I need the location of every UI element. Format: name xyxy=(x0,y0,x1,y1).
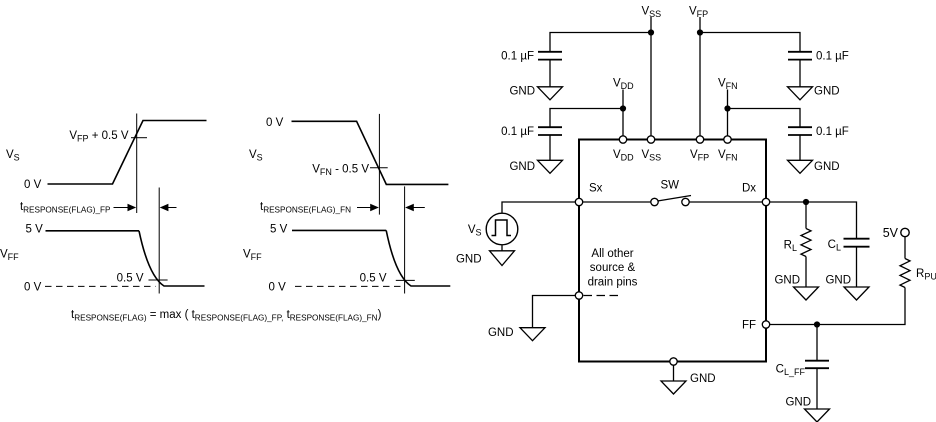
wire RPU to FF rail xyxy=(770,288,906,325)
svg-text:GND: GND xyxy=(509,161,535,173)
wire Vs source to Sx pin xyxy=(502,202,576,213)
svg-text:0 V: 0 V xyxy=(24,282,42,294)
svg-text:GND: GND xyxy=(690,373,716,385)
wire Vff falling waveform (FP case) xyxy=(46,230,140,232)
svg-text:GND: GND xyxy=(456,254,482,266)
capacitor CL xyxy=(844,239,870,247)
svg-text:source &: source & xyxy=(590,262,636,274)
wire CL_FF to gnd xyxy=(816,368,818,409)
svg-text:Sx: Sx xyxy=(589,183,603,195)
svg-text:0 V: 0 V xyxy=(266,117,284,129)
node tick 0.5V FP xyxy=(149,279,168,281)
wire 5V to RPU xyxy=(904,236,906,258)
node vline1 FN xyxy=(378,114,380,215)
wire other pins to gnd xyxy=(533,296,576,328)
node pin Dx xyxy=(762,198,769,205)
capacitor C bypass VFN 0.1uF xyxy=(788,127,812,135)
node pin FF xyxy=(762,321,769,328)
ground CL xyxy=(844,287,869,300)
wire dashed other pins stub xyxy=(584,295,619,297)
node junction dot VFP rail xyxy=(697,29,703,35)
ground other pins xyxy=(520,328,545,341)
wire CL_FF top xyxy=(816,325,818,361)
node tick VFP+0.5V threshold xyxy=(131,137,147,139)
wire VFN supply vertical xyxy=(727,90,729,137)
source 5V terminal xyxy=(901,228,909,236)
ground bottom pin xyxy=(661,381,686,394)
svg-text:0.5 V: 0.5 V xyxy=(360,273,387,285)
node tick 0.5V FN xyxy=(396,279,415,281)
ground CL_FF xyxy=(805,409,830,422)
svg-text:0.1 µF: 0.1 µF xyxy=(816,126,849,138)
wire rail VSS to left cap xyxy=(550,33,651,52)
svg-text:GND: GND xyxy=(488,327,514,339)
resistor RPU xyxy=(900,259,910,288)
wire right cap2 to gnd xyxy=(799,135,801,160)
svg-text:0 V: 0 V xyxy=(269,282,287,294)
svg-text:SW: SW xyxy=(661,180,680,192)
wire Dx to CL column xyxy=(770,202,857,239)
svg-text:5V: 5V xyxy=(883,226,899,240)
node tick VFN-0.5V threshold xyxy=(370,167,388,169)
wire VSS supply vertical xyxy=(650,17,652,136)
ground left cap2 xyxy=(538,160,563,173)
op-amp DUT box U1 xyxy=(579,140,766,362)
wire bottom pin to gnd xyxy=(673,365,675,381)
node vline2 FN xyxy=(404,186,406,293)
ground left cap1 xyxy=(538,87,563,100)
wire RL to gnd xyxy=(805,257,807,288)
wire rail VDD to left cap2 xyxy=(550,109,623,128)
svg-text:0.1 µF: 0.1 µF xyxy=(501,126,534,138)
node pin VDD xyxy=(619,136,626,143)
ground right cap1 xyxy=(788,87,813,100)
wire arrow left into vline2 FP xyxy=(168,207,177,209)
wire Vs falling waveform (FN case) xyxy=(292,121,449,184)
resistor RL xyxy=(801,229,811,257)
wire Vff falling waveform (FN case) xyxy=(292,229,386,231)
node pin bottom xyxy=(670,358,677,365)
svg-text:GND: GND xyxy=(814,161,840,173)
switch SW blade xyxy=(658,196,692,202)
node vline1 FP (measurement line at Vs threshold) xyxy=(136,114,138,214)
svg-text:GND: GND xyxy=(509,86,535,98)
svg-text:Dx: Dx xyxy=(742,183,756,195)
svg-text:0.1 µF: 0.1 µF xyxy=(501,51,534,63)
svg-text:0 V: 0 V xyxy=(24,179,42,191)
wire Sx to switch xyxy=(583,201,652,203)
svg-text:5 V: 5 V xyxy=(270,223,288,235)
node junction dot RL top xyxy=(803,199,809,205)
svg-text:drain pins: drain pins xyxy=(588,276,638,288)
ground right cap2 xyxy=(788,160,813,173)
node junction dot VFN rail xyxy=(724,105,730,111)
node pin Sx xyxy=(575,198,582,205)
wire VDD supply vertical xyxy=(622,90,624,137)
svg-text:GND: GND xyxy=(825,275,851,287)
capacitor CL_FF xyxy=(805,361,829,369)
switch SW pole contacts xyxy=(651,198,658,205)
wire left cap1 to gnd xyxy=(549,60,551,87)
wire arrow right into vline1 FP xyxy=(114,207,129,209)
node pin other xyxy=(575,292,582,299)
node pin VSS xyxy=(647,136,654,143)
ground Vs source xyxy=(490,251,515,266)
svg-text:All other: All other xyxy=(591,248,633,260)
wire rail VFN to right cap2 xyxy=(728,109,801,128)
ground RL xyxy=(794,287,819,300)
source Vs pulse generator xyxy=(486,213,518,245)
node junction dot VDD rail xyxy=(620,105,626,111)
capacitor C bypass VDD 0.1uF xyxy=(538,127,562,135)
node pin VFP xyxy=(696,136,703,143)
wire arrow right into vline1 FN xyxy=(357,207,371,209)
wire right cap1 to gnd xyxy=(799,60,801,87)
capacitor C bypass VFP 0.1uF xyxy=(788,52,812,60)
wire Vs source to gnd xyxy=(501,246,503,251)
svg-text:GND: GND xyxy=(774,275,800,287)
svg-text:GND: GND xyxy=(814,86,840,98)
wire Vs rising waveform (FP case) xyxy=(48,121,207,185)
svg-text:FF: FF xyxy=(742,320,756,332)
node pin VFN xyxy=(724,136,731,143)
wire left cap2 to gnd xyxy=(549,135,551,160)
wire rail VFP to right cap xyxy=(700,33,800,52)
svg-text:GND: GND xyxy=(785,397,811,409)
wire RL top xyxy=(805,202,807,229)
wire 0V dashed baseline FN xyxy=(295,285,402,287)
node vline2 FP (measurement line at Vff threshold) xyxy=(158,188,160,294)
capacitor C bypass VSS 0.1uF xyxy=(538,52,562,60)
node junction dot CL_FF top xyxy=(814,321,820,327)
wire CL to gnd xyxy=(856,247,858,287)
node junction dot VSS rail xyxy=(648,29,654,35)
wire VFP supply vertical xyxy=(699,17,701,136)
svg-text:0.1 µF: 0.1 µF xyxy=(816,51,849,63)
svg-text:0.5 V: 0.5 V xyxy=(117,273,144,285)
wire arrow left into vline2 FN xyxy=(413,207,425,209)
wire 0V dashed baseline FP xyxy=(45,285,156,287)
wire switch to Dx xyxy=(689,201,763,203)
svg-text:5 V: 5 V xyxy=(26,223,44,235)
